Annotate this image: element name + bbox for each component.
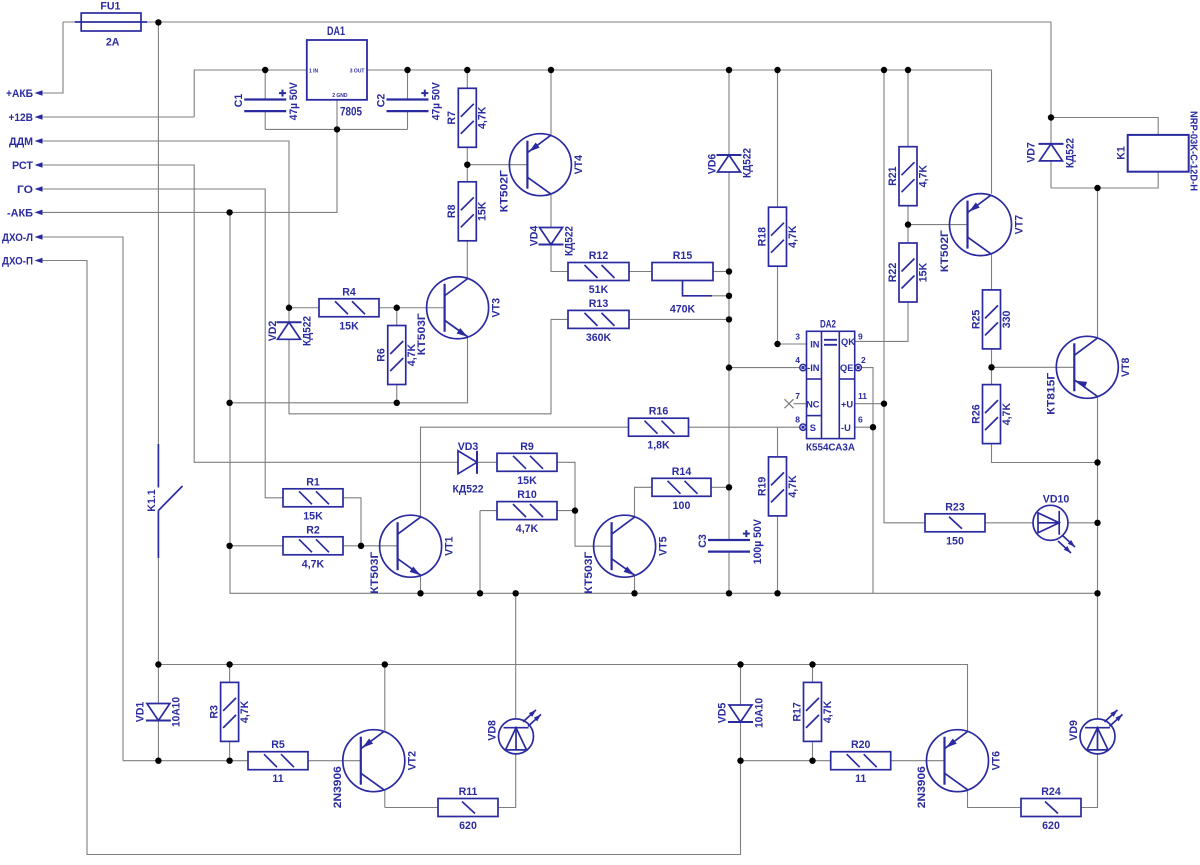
svg-text:VD4: VD4 bbox=[528, 226, 540, 247]
svg-text:R21: R21 bbox=[887, 166, 899, 186]
svg-text:VD5: VD5 bbox=[717, 703, 729, 724]
svg-text:R8: R8 bbox=[446, 204, 458, 218]
svg-text:11: 11 bbox=[858, 391, 867, 401]
svg-text:11: 11 bbox=[855, 773, 866, 785]
svg-text:R20: R20 bbox=[851, 739, 871, 751]
svg-text:-IN: -IN bbox=[807, 363, 820, 373]
svg-text:R22: R22 bbox=[887, 263, 899, 283]
svg-text:47µ 50V: 47µ 50V bbox=[430, 82, 442, 120]
svg-text:11: 11 bbox=[272, 773, 283, 785]
svg-text:100µ 50V: 100µ 50V bbox=[752, 519, 764, 564]
svg-text:K1: K1 bbox=[1115, 146, 1127, 160]
svg-text:КД522: КД522 bbox=[1064, 138, 1076, 168]
svg-text:-АКБ: -АКБ bbox=[7, 207, 33, 219]
svg-text:R5: R5 bbox=[271, 739, 285, 751]
svg-text:K1.1: K1.1 bbox=[146, 489, 158, 511]
svg-text:6: 6 bbox=[858, 415, 863, 425]
svg-text:10A10: 10A10 bbox=[753, 698, 765, 728]
svg-text:3 OUT: 3 OUT bbox=[350, 68, 365, 74]
svg-text:1,8K: 1,8K bbox=[647, 440, 670, 452]
svg-text:КТ503Г: КТ503Г bbox=[369, 552, 381, 594]
svg-text:QE: QE bbox=[840, 363, 853, 373]
svg-text:R17: R17 bbox=[791, 702, 803, 722]
svg-text:КТ502Г: КТ502Г bbox=[499, 170, 511, 212]
svg-text:3: 3 bbox=[795, 331, 800, 341]
svg-text:2N3906: 2N3906 bbox=[916, 766, 928, 808]
svg-text:620: 620 bbox=[459, 820, 477, 832]
svg-text:VD8: VD8 bbox=[486, 720, 498, 741]
svg-text:330: 330 bbox=[1001, 310, 1013, 328]
svg-text:1 IN: 1 IN bbox=[309, 68, 319, 74]
svg-text:C1: C1 bbox=[233, 94, 245, 108]
svg-text:R7: R7 bbox=[446, 111, 458, 125]
svg-text:VD9: VD9 bbox=[1068, 720, 1080, 741]
svg-text:РСТ: РСТ bbox=[12, 160, 33, 172]
svg-text:R10: R10 bbox=[517, 489, 537, 501]
svg-text:R2: R2 bbox=[306, 524, 320, 536]
svg-text:VD6: VD6 bbox=[706, 154, 718, 175]
svg-text:R19: R19 bbox=[756, 477, 768, 497]
svg-text:VT2: VT2 bbox=[407, 751, 419, 771]
svg-text:VT4: VT4 bbox=[573, 155, 585, 175]
svg-text:КТ503Г: КТ503Г bbox=[416, 313, 428, 355]
svg-text:4,7K: 4,7K bbox=[477, 106, 489, 129]
svg-text:КД522: КД522 bbox=[563, 226, 575, 256]
svg-text:R23: R23 bbox=[945, 501, 965, 513]
svg-text:15K: 15K bbox=[477, 201, 489, 221]
svg-text:2: 2 bbox=[861, 355, 866, 365]
svg-text:7805: 7805 bbox=[340, 105, 362, 119]
svg-text:R4: R4 bbox=[342, 286, 356, 298]
svg-text:+12В: +12В bbox=[9, 112, 34, 124]
svg-text:C3: C3 bbox=[697, 534, 709, 548]
svg-text:R13: R13 bbox=[589, 298, 609, 310]
svg-text:360K: 360K bbox=[586, 332, 612, 344]
svg-text:VT6: VT6 bbox=[990, 751, 1002, 771]
svg-text:К554СА3А: К554СА3А bbox=[806, 442, 855, 454]
svg-text:КТ502Г: КТ502Г bbox=[939, 230, 951, 272]
svg-text:ГО: ГО bbox=[17, 184, 33, 196]
svg-text:7: 7 bbox=[795, 391, 800, 401]
svg-text:150: 150 bbox=[946, 535, 964, 547]
svg-text:470K: 470K bbox=[670, 304, 696, 316]
svg-text:VD1: VD1 bbox=[134, 702, 146, 723]
svg-text:R12: R12 bbox=[589, 250, 609, 262]
svg-text:R24: R24 bbox=[1041, 786, 1061, 798]
svg-text:620: 620 bbox=[1042, 820, 1060, 832]
svg-text:IN: IN bbox=[810, 340, 820, 350]
svg-text:4,7K: 4,7K bbox=[1001, 403, 1013, 426]
svg-text:NRP-03K-C-12D-H: NRP-03K-C-12D-H bbox=[1188, 111, 1199, 191]
svg-text:15K: 15K bbox=[339, 320, 359, 332]
svg-text:51K: 51K bbox=[589, 284, 609, 296]
svg-text:R3: R3 bbox=[208, 705, 220, 719]
svg-text:R6: R6 bbox=[376, 348, 388, 362]
svg-text:4,7K: 4,7K bbox=[516, 523, 539, 535]
svg-text:VT8: VT8 bbox=[1120, 357, 1132, 377]
svg-text:4,7K: 4,7K bbox=[787, 475, 799, 498]
svg-text:4,7K: 4,7K bbox=[917, 165, 929, 188]
svg-text:4,7K: 4,7K bbox=[239, 700, 251, 723]
svg-text:КТ815Г: КТ815Г bbox=[1046, 373, 1058, 415]
svg-text:VD2: VD2 bbox=[267, 321, 279, 342]
svg-text:2 GND: 2 GND bbox=[332, 93, 348, 99]
svg-text:QK: QK bbox=[841, 337, 855, 347]
svg-text:КТ503Г: КТ503Г bbox=[583, 552, 595, 594]
svg-text:VT1: VT1 bbox=[443, 536, 455, 556]
svg-text:VD3: VD3 bbox=[458, 441, 479, 453]
svg-text:VD7: VD7 bbox=[1025, 142, 1037, 163]
svg-text:R11: R11 bbox=[459, 786, 478, 798]
svg-text:R26: R26 bbox=[970, 404, 982, 424]
svg-text:NC: NC bbox=[806, 399, 820, 409]
svg-text:15K: 15K bbox=[917, 262, 929, 282]
svg-text:КД522: КД522 bbox=[741, 148, 753, 178]
svg-text:DA2: DA2 bbox=[820, 319, 836, 331]
svg-text:+U: +U bbox=[841, 399, 853, 409]
svg-text:R1: R1 bbox=[306, 476, 320, 488]
svg-text:R15: R15 bbox=[673, 250, 693, 262]
svg-text:2A: 2A bbox=[106, 36, 120, 48]
svg-text:R16: R16 bbox=[649, 406, 669, 418]
svg-text:-U: -U bbox=[841, 423, 851, 433]
svg-text:ДДМ: ДДМ bbox=[9, 136, 33, 148]
svg-text:+АКБ: +АКБ bbox=[6, 88, 33, 100]
svg-text:100: 100 bbox=[673, 500, 691, 512]
svg-text:2N3906: 2N3906 bbox=[332, 766, 344, 808]
svg-text:9: 9 bbox=[858, 331, 863, 341]
svg-text:47µ 50V: 47µ 50V bbox=[288, 82, 300, 120]
svg-text:VT7: VT7 bbox=[1013, 215, 1025, 235]
svg-text:S: S bbox=[810, 423, 816, 433]
svg-text:КД522: КД522 bbox=[453, 484, 484, 496]
svg-text:R14: R14 bbox=[672, 466, 692, 478]
svg-text:DA1: DA1 bbox=[327, 26, 345, 38]
svg-text:15K: 15K bbox=[303, 510, 323, 522]
svg-text:КД522: КД522 bbox=[301, 316, 313, 346]
svg-text:4,7K: 4,7K bbox=[787, 225, 799, 248]
svg-text:10A10: 10A10 bbox=[170, 697, 182, 727]
svg-text:VT3: VT3 bbox=[490, 298, 502, 318]
svg-text:15K: 15K bbox=[517, 475, 537, 487]
svg-text:C2: C2 bbox=[375, 94, 387, 108]
svg-text:4,7K: 4,7K bbox=[302, 558, 325, 570]
svg-text:FU1: FU1 bbox=[100, 1, 120, 13]
svg-text:8: 8 bbox=[795, 415, 800, 425]
svg-text:ДХО-П: ДХО-П bbox=[2, 256, 33, 268]
svg-text:ДХО-Л: ДХО-Л bbox=[2, 232, 33, 244]
svg-text:4: 4 bbox=[795, 355, 800, 365]
svg-text:VT5: VT5 bbox=[657, 536, 669, 556]
svg-text:4,7K: 4,7K bbox=[822, 700, 834, 723]
svg-text:R9: R9 bbox=[520, 441, 534, 453]
svg-text:R18: R18 bbox=[756, 227, 768, 247]
svg-text:R25: R25 bbox=[970, 310, 982, 330]
svg-text:VD10: VD10 bbox=[1043, 494, 1070, 506]
